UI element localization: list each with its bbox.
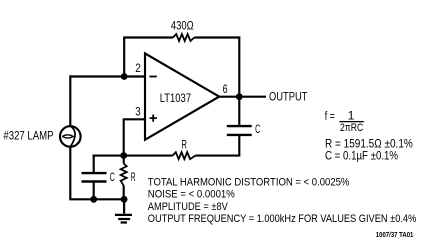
- svg-text:1007/37 TA01: 1007/37 TA01: [376, 230, 414, 239]
- wire: top feedback loop and right rail upper segment: [124, 38, 239, 97]
- svg-text:f =: f =: [325, 111, 335, 123]
- svg-text:TOTAL HARMONIC DISTORTION = <: TOTAL HARMONIC DISTORTION = < 0.0025%: [148, 177, 350, 189]
- node: junction pin3 / R / C / feedback: [120, 152, 127, 159]
- minus sign (inverting input): [150, 76, 157, 78]
- svg-text:AMPLITUDE = ±8V: AMPLITUDE = ±8V: [148, 201, 228, 213]
- capacitor C (series, right rail): [227, 126, 252, 135]
- wire: right rail from output node to capacitor: [238, 97, 240, 125]
- svg-text:C: C: [255, 124, 260, 136]
- node: capacitor bottom junction: [90, 196, 97, 203]
- svg-text:OUTPUT: OUTPUT: [269, 91, 307, 103]
- svg-text:R: R: [131, 172, 136, 184]
- svg-text:R: R: [182, 140, 187, 152]
- wire: pin 6 output to OUTPUT stub: [219, 96, 267, 98]
- svg-text:2πRC: 2πRC: [340, 122, 363, 134]
- svg-text:NOISE = < 0.0001%: NOISE = < 0.0001%: [148, 189, 235, 201]
- svg-text:6: 6: [223, 82, 228, 96]
- svg-text:3: 3: [135, 105, 141, 119]
- svg-text:430Ω: 430Ω: [171, 19, 194, 33]
- wire: pin 3 lead and vertical down: [124, 119, 146, 155]
- wire: lamp branch upper vertical: [69, 75, 71, 126]
- node: junction pin2 / lamp branch: [121, 73, 128, 80]
- op-amp U1 triangle: [145, 53, 219, 139]
- lamp DS1 #327: [60, 126, 81, 147]
- svg-text:#327 LAMP: #327 LAMP: [3, 131, 53, 143]
- svg-text:LT1037: LT1037: [160, 93, 191, 105]
- formula f = 1/(2 pi RC): [325, 108, 364, 134]
- ground: [115, 199, 132, 222]
- svg-text:OUTPUT FREQUENCY = 1.000kHz FO: OUTPUT FREQUENCY = 1.000kHz FOR VALUES G…: [148, 213, 417, 225]
- resistor R (vertical, to ground): [121, 156, 127, 200]
- capacitor C (left, to ground): [82, 155, 107, 200]
- wire: inverting input (pin 2) horizontal: [70, 75, 146, 77]
- node: output junction: [236, 93, 243, 100]
- wire: lamp branch lower vertical and bottom wire: [70, 147, 124, 200]
- plus sign (non-inverting input): [150, 115, 157, 122]
- resistor R (bottom horizontal): [173, 152, 196, 159]
- wire: right rail below capacitor, corner to bottom resistor: [195, 136, 239, 156]
- svg-text:2: 2: [135, 61, 141, 75]
- svg-text:C = 0.1µF ±0.1%: C = 0.1µF ±0.1%: [325, 149, 398, 163]
- svg-text:C: C: [110, 172, 115, 184]
- resistor 430ohm: [173, 34, 194, 41]
- wire: mid horizontal from capacitor C to resistor R: [93, 155, 173, 157]
- svg-text:1: 1: [348, 108, 355, 122]
- node: ground junction: [121, 196, 128, 203]
